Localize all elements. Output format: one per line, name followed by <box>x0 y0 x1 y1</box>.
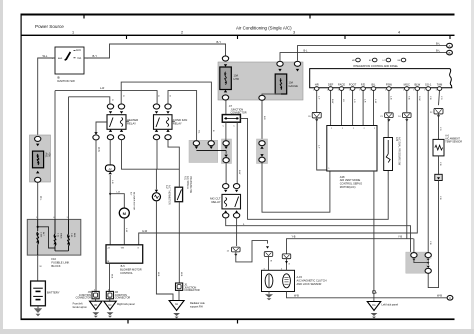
svg-text:FACE: FACE <box>338 82 345 86</box>
MG CLT relay bottom pins <box>224 210 227 213</box>
svg-text:1: 1 <box>385 90 386 92</box>
heater relay bottom pins <box>109 129 112 132</box>
servo ground wire <box>373 171 375 302</box>
MG CLT relay top pins <box>223 184 229 189</box>
svg-text:W-B: W-B <box>294 295 299 298</box>
wire MG relay pin3 to compressor <box>236 218 238 246</box>
svg-text:F/D: F/D <box>361 82 365 86</box>
svg-text:A/C DUAL PRESSURE SW: A/C DUAL PRESSURE SW <box>398 137 401 166</box>
svg-text:1: 1 <box>72 31 74 35</box>
svg-text:Y-G: Y-G <box>440 96 442 100</box>
svg-text:IG1: IG1 <box>78 57 83 60</box>
svg-text:A/C MAGNETIC CLUTCH: A/C MAGNETIC CLUTCH <box>297 278 327 282</box>
svg-text:1: 1 <box>436 90 437 92</box>
svg-text:1: 1 <box>403 90 404 92</box>
wire BLW to blower control <box>139 91 418 245</box>
bus lower drop to fusible link <box>68 97 70 220</box>
blower motor to control <box>123 218 125 245</box>
fan relay bottom pins <box>155 129 158 132</box>
svg-text:BLW: BLW <box>414 82 420 86</box>
wire W-B relay to J/5 <box>95 140 97 292</box>
svg-text:2: 2 <box>181 31 183 35</box>
sensor lower connector <box>438 156 440 174</box>
wire TAM to ambient sensor <box>439 91 440 106</box>
svg-text:L-Y: L-Y <box>317 145 319 149</box>
svg-text:FOOT: FOOT <box>349 82 357 86</box>
frame bottom border <box>21 318 455 320</box>
connector circles right box <box>413 239 415 253</box>
frame top border <box>21 14 455 16</box>
svg-text:10A: 10A <box>234 74 239 78</box>
fusible link block F10 <box>27 219 81 255</box>
svg-text:A31: A31 <box>183 176 186 181</box>
bus wire L-R upper <box>55 91 157 104</box>
svg-text:1: 1 <box>429 258 431 259</box>
svg-text:AND LOCK SENSOR: AND LOCK SENSOR <box>297 282 322 286</box>
wire from fan relay to single pressure sw <box>168 140 179 188</box>
svg-text:A/C THERMISTOR: A/C THERMISTOR <box>168 185 171 205</box>
svg-text:fender apron: fender apron <box>73 306 88 309</box>
junction pin drop to MG relay <box>236 122 238 183</box>
heater relay box <box>107 115 126 130</box>
svg-text:Right kick panel: Right kick panel <box>117 303 135 306</box>
svg-text:W-B: W-B <box>110 274 112 279</box>
svg-text:1: 1 <box>370 90 371 92</box>
svg-text:ALT: ALT <box>42 232 45 237</box>
svg-text:L-R: L-R <box>100 86 104 90</box>
battery <box>31 281 46 306</box>
svg-text:O: O <box>122 95 124 97</box>
wire PSW to pressure switch <box>388 91 390 113</box>
svg-text:O: O <box>157 95 159 97</box>
svg-text:TEMP SENSOR: TEMP SENSOR <box>445 142 462 144</box>
svg-text:SG-1: SG-1 <box>425 82 432 86</box>
svg-text:W-L: W-L <box>43 54 48 58</box>
fuse 10A GAUGE <box>275 74 287 94</box>
svg-text:Y-B: Y-B <box>429 241 431 245</box>
svg-text:Air Conditioning (Single A/C): Air Conditioning (Single A/C) <box>236 25 292 30</box>
gray junction band <box>189 140 218 162</box>
connector circle below AM1 fuse <box>36 171 39 174</box>
svg-text:MGC: MGC <box>404 82 410 86</box>
air vent mode servo box A38 <box>327 126 377 172</box>
svg-text:W-B: W-B <box>97 147 100 152</box>
svg-text:3: 3 <box>293 31 295 35</box>
svg-text:4: 4 <box>398 31 400 35</box>
svg-text:B-L: B-L <box>304 50 309 53</box>
svg-text:1: 1 <box>327 90 328 92</box>
svg-text:Y-B: Y-B <box>439 196 441 200</box>
svg-text:A/C SINGLE: A/C SINGLE <box>186 176 189 189</box>
wire SG-1 down <box>427 91 429 253</box>
svg-text:B-L: B-L <box>436 48 441 52</box>
svg-text:1: 1 <box>338 90 339 92</box>
ground triangle IG left kick panel <box>367 302 381 311</box>
svg-text:GAUGE: GAUGE <box>289 84 299 88</box>
page edge shading <box>0 0 3 334</box>
svg-text:CONTROL: CONTROL <box>120 271 133 275</box>
fuse AM1 40A <box>33 151 44 168</box>
svg-text:VM: VM <box>121 248 124 250</box>
junction block gray area <box>218 62 303 100</box>
connector circle above AM1 fuse <box>35 136 41 141</box>
wire bus to thermistor <box>155 169 157 189</box>
svg-text:A/C AMBIENT: A/C AMBIENT <box>445 138 460 141</box>
svg-text:HR: HR <box>315 82 319 86</box>
svg-text:RELAY: RELAY <box>127 122 136 126</box>
ignition switch key lever <box>65 52 71 61</box>
wire band to MG relay <box>225 163 227 184</box>
svg-text:L-B: L-B <box>390 96 392 100</box>
A/C thermistor <box>152 193 160 201</box>
branch to blower motor <box>109 193 111 195</box>
svg-text:AM1: AM1 <box>58 57 63 60</box>
svg-text:Power Source: Power Source <box>35 24 64 29</box>
gauge fuse bottom connector <box>262 93 281 96</box>
svg-text:40A: 40A <box>48 153 51 158</box>
svg-text:A38: A38 <box>340 175 345 179</box>
ground triangle IA <box>178 290 180 300</box>
gray pass-through connector <box>257 139 268 164</box>
svg-text:L-Y: L-Y <box>317 96 319 100</box>
svg-text:Y-B: Y-B <box>439 162 441 166</box>
svg-text:A-15: A-15 <box>297 275 303 279</box>
svg-text:TAM: TAM <box>437 82 443 86</box>
wire MG relay pin5 to bus <box>226 218 411 252</box>
fusible link MAIN <box>54 234 56 246</box>
compressor ground <box>268 292 270 294</box>
svg-text:CONNECTOR: CONNECTOR <box>76 297 92 300</box>
svg-text:G: G <box>287 263 289 265</box>
wire W-L to fusible link block <box>37 182 39 219</box>
page connector B <box>447 50 453 55</box>
svg-text:1: 1 <box>413 90 414 92</box>
svg-text:A32: A32 <box>395 137 398 142</box>
svg-text:FUSIBLE LINK: FUSIBLE LINK <box>51 261 69 265</box>
svg-text:2: 2 <box>374 128 375 130</box>
svg-text:2: 2 <box>364 128 365 130</box>
svg-text:LG: LG <box>342 99 344 102</box>
svg-text:DEF: DEF <box>328 82 334 86</box>
svg-text:1: 1 <box>313 90 314 92</box>
svg-text:CONNECTOR: CONNECTOR <box>184 289 200 292</box>
MG CLT relay box <box>222 194 241 209</box>
junction connector A box <box>222 115 240 123</box>
junction band lower circle <box>225 150 227 153</box>
svg-text:O: O <box>168 95 170 97</box>
fusible link internal wires <box>37 219 39 231</box>
svg-text:RELAY: RELAY <box>212 200 221 204</box>
relay2 left pin wire to bus <box>156 140 158 170</box>
svg-text:B-5: B-5 <box>121 264 126 268</box>
svg-text:ACC: ACC <box>76 49 81 52</box>
junction pin drop long loop <box>240 118 388 219</box>
blower control output to J/6 <box>109 263 111 291</box>
gauge feed circles <box>277 61 283 66</box>
svg-text:W-L: W-L <box>39 196 42 201</box>
svg-text:W-B: W-B <box>437 294 442 298</box>
Y-B wire to lock sensor <box>286 259 288 270</box>
compressor sensor output wire W-B <box>287 292 447 298</box>
gray connector box right <box>406 252 427 273</box>
svg-text:PRESSURE SW: PRESSURE SW <box>189 176 191 194</box>
svg-text:L-B: L-B <box>116 192 120 194</box>
bus left drop to fusible link <box>54 91 56 220</box>
svg-text:O: O <box>111 99 113 101</box>
svg-text:2: 2 <box>331 128 332 130</box>
svg-text:HTR: HTR <box>234 77 239 81</box>
svg-text:IGNITION SW: IGNITION SW <box>57 79 75 83</box>
wire junction connector to band <box>225 122 227 140</box>
HTR fuse bottom connector <box>224 90 227 93</box>
wire B-L risers to page connectors <box>298 46 447 61</box>
fusible link ALT <box>37 232 39 245</box>
gray strip AM1 fuse holder <box>30 135 51 182</box>
svg-text:Y-B: Y-B <box>292 236 296 239</box>
svg-text:Y-G: Y-G <box>439 127 441 131</box>
frame left border <box>21 14 22 320</box>
svg-text:W-B: W-B <box>180 272 182 277</box>
wire MGC down <box>406 91 408 113</box>
svg-text:BLOWER MOTOR: BLOWER MOTOR <box>120 268 142 272</box>
illumination circles row <box>356 58 361 62</box>
svg-text:MOTOR(A/C): MOTOR(A/C) <box>340 185 356 189</box>
blower motor <box>119 208 129 218</box>
wire HR pin to servo <box>316 91 318 113</box>
svg-text:W-B: W-B <box>157 272 159 277</box>
wire B-Y ignition to HTR fuse <box>84 44 226 58</box>
svg-text:G-W: G-W <box>142 230 148 233</box>
svg-text:1: 1 <box>359 90 360 92</box>
svg-text:1: 1 <box>424 90 425 92</box>
svg-text:BLOWER MOTOR: BLOWER MOTOR <box>132 192 134 211</box>
svg-text:RELAY: RELAY <box>173 122 182 126</box>
wires DEF FACE FOOT FD BL to servo top <box>330 91 332 126</box>
svg-text:PSW: PSW <box>386 82 393 86</box>
svg-text:Y-B: Y-B <box>429 96 431 100</box>
junction band circles <box>193 141 199 146</box>
A/C dual pressure switch <box>384 138 393 171</box>
svg-text:CONTROL SERVO: CONTROL SERVO <box>340 182 362 186</box>
wire W-L from ignition switch <box>38 58 55 137</box>
heater relay top pins <box>107 104 113 109</box>
heater relay left pin wire to ground chain <box>96 122 107 132</box>
svg-text:1: 1 <box>349 90 350 92</box>
wire to routing loop A <box>262 162 330 212</box>
svg-text:BATTERY: BATTERY <box>47 290 60 294</box>
thermistor ground wire <box>156 201 173 301</box>
junction connector J/6 <box>106 291 113 298</box>
fusible link AM1 <box>68 234 70 246</box>
svg-text:L-R: L-R <box>364 99 366 103</box>
svg-text:B-Y: B-Y <box>217 40 222 44</box>
fuse 10A HTR <box>220 67 232 90</box>
svg-text:Y-B: Y-B <box>398 236 402 239</box>
blower feed inline connector <box>109 140 111 165</box>
svg-text:B-Y: B-Y <box>93 54 98 58</box>
svg-text:BLOCK: BLOCK <box>51 264 60 268</box>
svg-text:AIR VENT MODE: AIR VENT MODE <box>340 178 361 182</box>
ignition switch IB box <box>55 47 84 74</box>
svg-text:C: C <box>449 296 451 300</box>
integration control big box <box>310 69 452 88</box>
svg-text:MAIN: MAIN <box>59 233 62 239</box>
battery ground <box>37 306 39 308</box>
bus upper right segment <box>168 91 197 141</box>
svg-text:L-B: L-B <box>111 180 113 184</box>
wire HTR fuse to junction connector <box>225 100 227 115</box>
svg-text:IA: IA <box>175 302 178 306</box>
fan relay box <box>154 115 173 130</box>
ground triangle ID <box>95 299 97 301</box>
compressor magnetic clutch box <box>262 270 295 291</box>
wire to battery <box>37 255 39 281</box>
svg-text:10A: 10A <box>289 81 294 85</box>
svg-text:Y-B: Y-B <box>407 96 409 100</box>
svg-text:F10: F10 <box>51 257 56 261</box>
svg-text:INTEGRATION CONTROL AND PANEL: INTEGRATION CONTROL AND PANEL <box>353 64 399 68</box>
svg-text:CONNECTOR: CONNECTOR <box>115 297 131 300</box>
page connector A <box>447 43 453 48</box>
wire relay1 to junction band upper <box>121 82 211 140</box>
single pressure switch <box>175 187 183 202</box>
ambient temp sensor resistor <box>433 139 444 156</box>
svg-text:B/L: B/L <box>371 82 376 86</box>
svg-text:B-L: B-L <box>436 41 441 45</box>
blower motor control box <box>106 245 143 263</box>
ground triangle IC <box>109 299 111 301</box>
header divider line <box>21 35 455 36</box>
svg-text:AM1: AM1 <box>45 153 48 159</box>
svg-text:B-R: B-R <box>263 116 265 120</box>
HTR fuse top connector <box>222 56 228 61</box>
svg-text:Left kick panel: Left kick panel <box>382 302 399 306</box>
svg-text:A: A <box>449 44 451 48</box>
svg-text:2: 2 <box>353 128 354 130</box>
svg-text:B: B <box>449 51 451 55</box>
svg-text:L-O: L-O <box>353 99 355 103</box>
svg-text:AM1: AM1 <box>73 233 76 238</box>
svg-text:support RH: support RH <box>190 305 203 308</box>
fan relay top pins <box>153 104 159 109</box>
heater relay pin2 bus to thermistor and pressure sw <box>122 140 180 170</box>
wire B-R from gauge fuse down <box>261 101 263 141</box>
svg-text:LO: LO <box>383 60 386 62</box>
sensor loop to gray box <box>428 181 438 288</box>
junction connector J/1 <box>178 202 180 283</box>
svg-text:2: 2 <box>342 128 343 130</box>
bus wire lower <box>69 97 110 104</box>
